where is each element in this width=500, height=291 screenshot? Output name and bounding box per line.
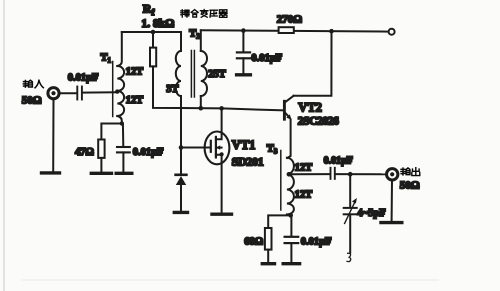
rail A wire [122,31,181,33]
svg-text:T3: T3 [267,143,278,155]
svg-text:12T: 12T [295,163,313,174]
wire C1 to T1 tap [82,91,117,93]
scan artifact bottom line [22,279,438,281]
wire C3 to ground [242,58,244,72]
mosfet VT1 body [205,132,230,165]
node output/trimmer dot [348,172,353,177]
wire connector stem to ground [52,99,54,172]
trimmer arrow [345,198,357,223]
label coupling transformer 耦合变压器 [181,9,227,17]
diode D1 [176,175,187,185]
node rail/collector dot [329,29,334,34]
node drain dot [219,106,224,111]
T3 winding bottom lead [287,214,291,217]
label input 输入 [23,80,32,87]
wire 3T top lead [180,32,182,51]
capacitor C4 stem [290,215,292,235]
svg-text:12T: 12T [126,95,144,106]
node T3 bottom dot [288,213,293,218]
svg-text:Rf: Rf [143,1,155,16]
svg-text:0.01μF: 0.01μF [324,155,353,166]
wire 25T bottom lead [200,96,202,108]
output connector J2 [387,169,398,180]
capacitor C3 stem [242,31,244,52]
trimmer capacitor CT 4~5pF [344,208,357,214]
scan edge artifact left [3,0,5,291]
压 [210,10,218,17]
wire output connector stem [391,180,393,221]
label output 输出 [401,168,410,175]
resistor R1 47ohm [98,140,104,158]
svg-text:68Ω: 68Ω [244,236,263,247]
T3 core [280,151,282,211]
capacitor C5 0.01uF [331,168,335,179]
变 [200,9,208,17]
svg-text:0.01μF: 0.01μF [68,73,99,84]
T2 secondary 25T winding [201,51,207,96]
T1 winding top lead [117,32,122,66]
svg-text:VT2: VT2 [298,100,322,114]
trimmer bottom squiggle [347,253,351,261]
rail B wire [201,30,389,31]
resistor R3 68ohm [265,228,272,250]
wire emitter to T3 [287,120,290,159]
T2 primary 3T winding [176,51,181,96]
器 [219,10,227,18]
VT1 gate bar [210,141,212,152]
wire Rf top stem [152,32,154,48]
svg-text:T2: T2 [189,29,200,41]
T1 core [112,62,114,117]
node rail A / Rf dot [151,30,156,35]
capacitor C1 0.01uF [77,87,82,100]
ground under VT1 source [212,212,232,215]
node source dot [220,152,224,156]
wire T3 tap to C5 [289,173,330,175]
wire C4 to ground [290,243,292,262]
trimmer lower stem [349,215,351,253]
svg-text:3T: 3T [166,84,178,95]
resistor Rf 1.8k [150,48,156,67]
T1 winding bottom lead [117,116,122,124]
wire gate line from 3T [180,96,182,148]
T1 winding L1 12T/12T [117,66,124,116]
ground under C4 [283,262,299,265]
capacitor C4 0.01uF [285,237,299,243]
wire R3 to ground [267,250,269,262]
svg-text:12T: 12T [295,189,313,200]
resistor R2 270ohm [279,27,294,33]
VT1 drain stub [216,108,222,139]
node gate dot [179,145,184,150]
svg-text:4~5pF: 4~5pF [357,208,385,219]
svg-text:0.01μF: 0.01μF [301,236,332,247]
wire collector drop [294,31,332,96]
svg-text:0.01μF: 0.01μF [133,147,164,158]
diode D1 stem [180,148,182,175]
ground under D1 [174,211,187,214]
svg-text:SD201: SD201 [232,154,264,168]
VT1 channel bar [215,137,217,158]
transistor VT2 collector diagonal [285,96,294,103]
svg-text:VT1: VT1 [232,138,256,152]
svg-text:T1: T1 [101,53,112,65]
ground under C2 [116,172,132,175]
svg-text:12T: 12T [126,67,144,78]
T2 core lines [191,51,194,98]
wire T1 bottom to R1 [101,124,121,140]
capacitor C3 0.01uF [237,52,250,58]
wire D1 to ground [180,185,182,211]
node T3 tap dot [287,172,292,177]
ground under output connector [381,221,402,224]
node rail/C3 dot [241,28,246,33]
node T1 tap dot [115,89,119,93]
wire Rf bottom stem [153,66,181,108]
svg-text:47Ω: 47Ω [75,147,94,158]
wire drain line [181,108,284,110]
transistor VT2 emitter with arrow [285,112,290,117]
svg-text:0.01μF: 0.01μF [251,53,282,64]
wire 25T top lead [200,30,202,51]
input connector J1 [48,88,59,99]
node 25T/drain line dot [199,106,204,111]
trimmer cap stem [349,174,351,207]
合 [191,10,198,17]
wire T3 bottom to R3 [268,215,291,228]
svg-text:2SC2026: 2SC2026 [298,116,339,128]
ground under input connector [42,171,60,174]
wire gate to VT1 [181,147,210,149]
ground under R1 [91,172,111,175]
VT1 source stub [216,155,222,213]
ground under R3 [262,262,274,265]
supply terminal ring [389,29,395,35]
capacitor C2 0.01uF [117,147,130,152]
svg-text:50Ω: 50Ω [22,94,42,106]
svg-text:25T: 25T [208,69,226,80]
node bottom of T1 dot [120,121,124,125]
transistor VT2 base bar [283,101,286,119]
VT1 bulk arrow [216,147,222,149]
wire C2 to ground [122,152,124,171]
svg-text:270Ω: 270Ω [277,13,303,25]
耦 [181,10,189,17]
wire input connector to C1 [59,92,76,94]
ground under C3 [237,73,251,76]
wire R1 to ground [100,158,102,171]
wire C5 to output connector [335,173,386,175]
svg-text:1. 8kΩ: 1. 8kΩ [142,18,175,30]
svg-text:50Ω: 50Ω [400,179,420,191]
T3 winding 12T/12T [287,158,294,215]
wire T1 bottom to C2 [122,124,124,147]
